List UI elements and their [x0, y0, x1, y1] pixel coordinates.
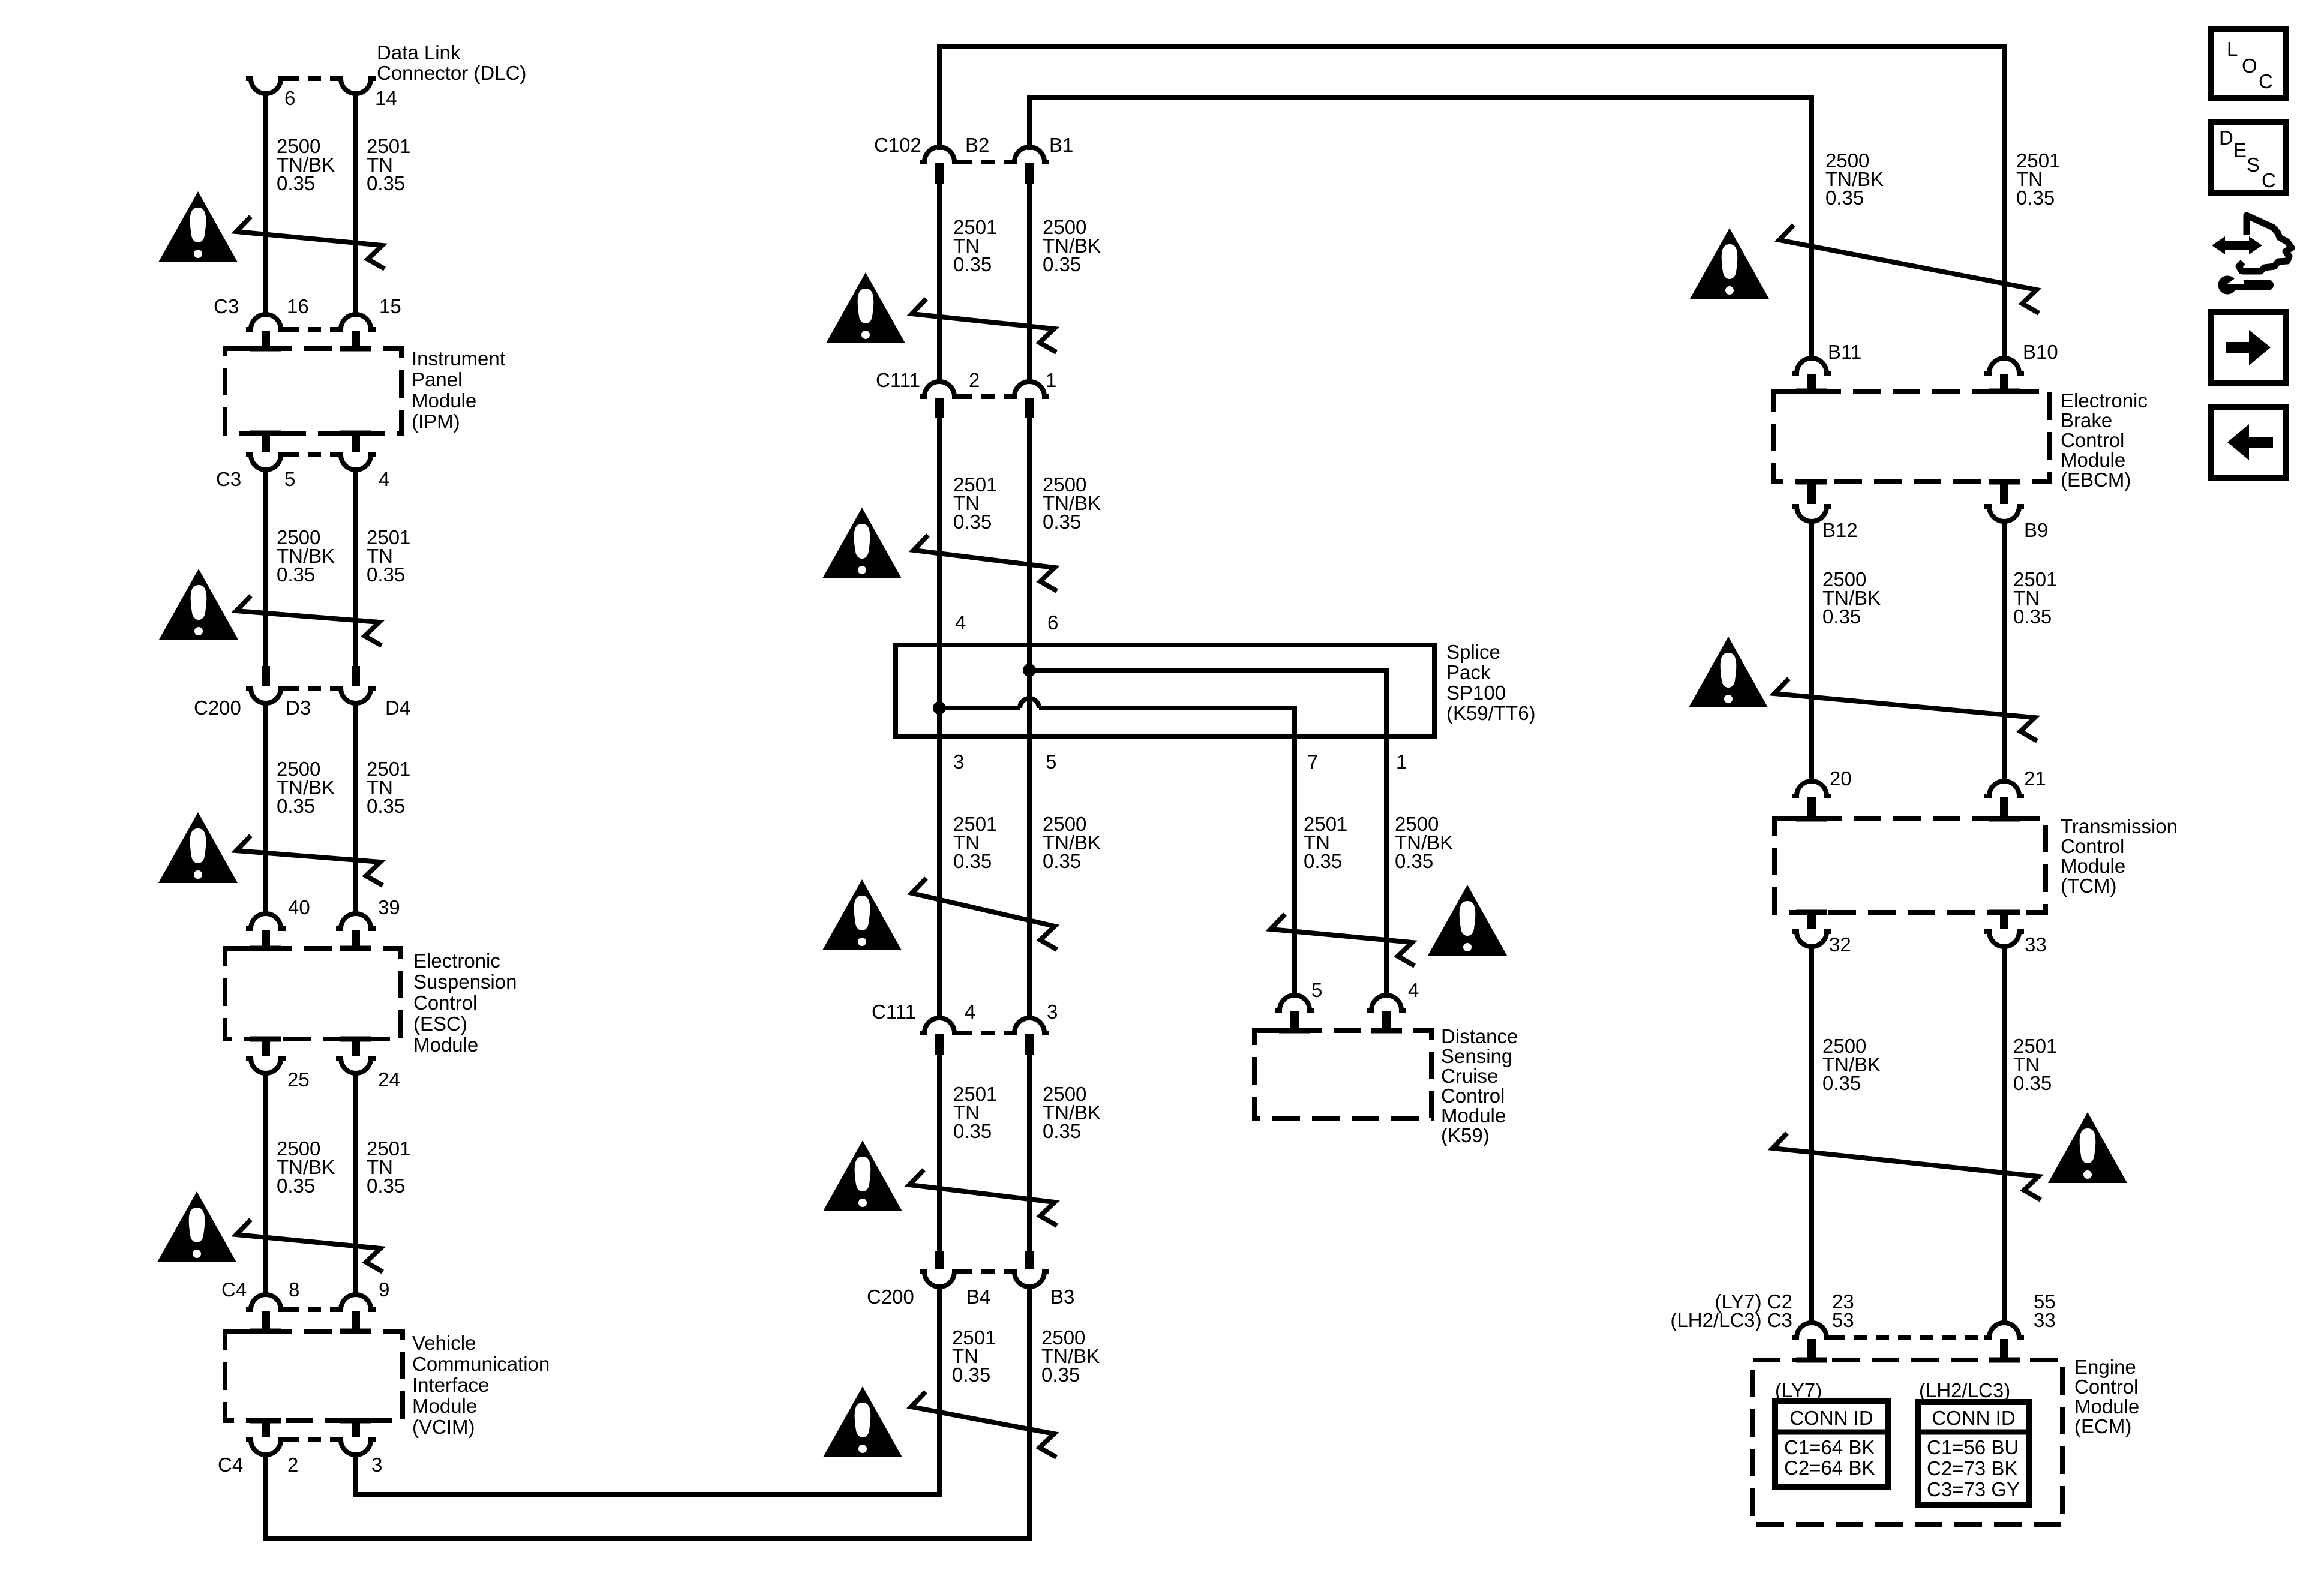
svg-text:C102: C102: [874, 134, 921, 156]
svg-text:0.35: 0.35: [1043, 1120, 1081, 1142]
wire 2501 TN TCM-33 to ECM: [2002, 947, 2007, 1324]
svg-text:B9: B9: [2024, 519, 2048, 541]
connector DLC pin 14: [336, 79, 376, 94]
connector C111 pin 2: [920, 382, 959, 397]
svg-text:1: 1: [1046, 369, 1056, 391]
in-line harness crossing 12: [1774, 679, 2037, 741]
svg-text:4: 4: [955, 611, 966, 634]
svg-text:(LY7): (LY7): [1775, 1379, 1822, 1401]
svg-text:Control: Control: [2074, 1376, 2138, 1398]
svg-text:Module: Module: [2061, 449, 2125, 471]
svg-text:0.35: 0.35: [1043, 253, 1081, 275]
svg-text:2: 2: [969, 369, 980, 391]
wire 2500 TN/BK EBCM-B12 to TCM-20: [1809, 521, 1814, 783]
connector DLC dashed link: [286, 76, 336, 81]
svg-text:(K59/TT6): (K59/TT6): [1446, 702, 1536, 724]
svg-text:(VCIM): (VCIM): [412, 1416, 475, 1438]
svg-text:0.35: 0.35: [1395, 850, 1433, 872]
in-line harness crossing 2: [236, 596, 382, 646]
svg-text:0.35: 0.35: [953, 1120, 992, 1142]
svg-text:0.35: 0.35: [367, 795, 405, 817]
junction dot on wire 6: [1023, 664, 1036, 677]
svg-text:33: 33: [2034, 1309, 2056, 1331]
svg-text:32: 32: [1829, 933, 1851, 956]
svg-text:(IPM): (IPM): [412, 410, 460, 433]
warning triangle 10: [823, 1386, 902, 1457]
wire 2500 TN/BK ESC-25 to VCIM-8: [263, 1073, 268, 1296]
svg-text:0.35: 0.35: [277, 1175, 315, 1197]
sidebar diagnostic icon vehicle outline: [2239, 215, 2292, 271]
wire 2501 TN ESC-24 to VCIM-9: [353, 1073, 358, 1296]
wire 2500 TN/BK DLC-6 to IPM-16: [263, 92, 268, 316]
connector C3 pin 16: [246, 314, 286, 329]
svg-text:0.35: 0.35: [277, 172, 315, 194]
connector C111 pin 1: [1010, 382, 1049, 397]
splice bus lower (to pin 7): [939, 708, 1295, 996]
connector DLC pin 6: [246, 79, 286, 94]
connector C111 dashed link (4-3): [959, 1031, 1010, 1035]
svg-text:(ESC): (ESC): [413, 1013, 467, 1035]
svg-text:B10: B10: [2023, 341, 2058, 363]
svg-text:CONN ID: CONN ID: [1789, 1407, 1873, 1429]
svg-text:0.35: 0.35: [367, 563, 405, 586]
connector C102 pin B2: [920, 147, 959, 162]
in-line harness crossing 5: [912, 299, 1056, 352]
svg-text:3: 3: [371, 1454, 382, 1476]
in-line harness crossing 9: [909, 1170, 1057, 1226]
in-line harness crossing 4: [236, 1220, 383, 1272]
svg-text:0.35: 0.35: [277, 563, 315, 586]
svg-text:C1=64 BK: C1=64 BK: [1784, 1436, 1875, 1458]
module ECM box: [1753, 1360, 2062, 1524]
wire 2501 TN IPM-4 to C200-D4: [353, 470, 358, 667]
svg-text:0.35: 0.35: [1825, 187, 1864, 209]
svg-text:C2=64 BK: C2=64 BK: [1784, 1457, 1875, 1479]
sidebar LOC box: [2211, 29, 2286, 98]
wire 2501 TN VCIM-3 to C200-B4: [356, 1287, 939, 1494]
svg-text:Module: Module: [1441, 1104, 1506, 1127]
svg-text:(EBCM): (EBCM): [2061, 469, 2131, 491]
svg-text:E: E: [2233, 139, 2247, 161]
in-line harness crossing 6: [914, 535, 1057, 591]
svg-text:15: 15: [379, 295, 401, 317]
svg-text:39: 39: [378, 896, 400, 918]
splice bus upper (to pin 1): [1029, 670, 1386, 996]
wire 2500 TN/BK VCIM-2 to C200-B3: [266, 1287, 1029, 1539]
warning triangle 1: [158, 191, 238, 262]
svg-text:L: L: [2227, 38, 2238, 60]
in-line harness crossing 1: [236, 217, 385, 269]
sidebar prev-view arrow box: [2211, 407, 2286, 478]
svg-text:Vehicle: Vehicle: [412, 1332, 476, 1354]
svg-text:14: 14: [375, 87, 397, 109]
svg-text:6: 6: [284, 87, 295, 109]
svg-text:0.35: 0.35: [1304, 850, 1342, 872]
warning triangle 8: [1428, 885, 1507, 956]
svg-text:Panel: Panel: [412, 368, 462, 391]
svg-text:C3: C3: [216, 468, 241, 490]
connector K59 pin 5: [1275, 995, 1314, 1010]
wire 2500 TN/BK C102-B1 to EBCM-B11 (second run): [1029, 97, 1812, 360]
svg-text:Pack: Pack: [1446, 661, 1491, 683]
svg-text:Interface: Interface: [412, 1374, 489, 1396]
svg-text:B1: B1: [1049, 134, 1073, 156]
svg-text:7: 7: [1307, 751, 1318, 773]
svg-text:Splice: Splice: [1446, 641, 1500, 663]
wire 2500 TN/BK C111-3 to C200-B3: [1027, 1055, 1032, 1252]
wire 2500 TN/BK IPM-5 to C200-D3: [263, 470, 268, 667]
svg-text:Electronic: Electronic: [413, 950, 500, 972]
svg-text:Brake: Brake: [2061, 409, 2112, 431]
connector C3 pin 4: [352, 432, 360, 452]
svg-text:C111: C111: [872, 1001, 916, 1023]
sidebar DESC box: [2211, 122, 2286, 193]
svg-text:(K59): (K59): [1441, 1124, 1490, 1146]
wire 2501 TN C200-D4 to ESC-39: [353, 703, 358, 915]
wire 2501 TN EBCM-B9 to TCM-21: [2002, 521, 2007, 783]
svg-text:C1=56 BU: C1=56 BU: [1927, 1436, 2019, 1458]
svg-text:D: D: [2219, 127, 2233, 149]
wire 2501 TN C102 to C111-2: [937, 184, 942, 383]
svg-text:(LH2/LC3) C3: (LH2/LC3) C3: [1670, 1309, 1792, 1331]
svg-text:O: O: [2242, 55, 2257, 77]
warning triangle 12: [1689, 637, 1768, 707]
svg-text:Connector (DLC): Connector (DLC): [377, 62, 526, 84]
connector TCM pin 33: [2000, 911, 2008, 929]
module ESC box: [225, 948, 401, 1039]
wire 2500 TN/BK TCM-32 to ECM: [1809, 947, 1814, 1324]
svg-text:Data Link: Data Link: [377, 41, 461, 64]
warning triangle 6: [822, 508, 902, 578]
svg-text:C: C: [2262, 169, 2276, 191]
connector C3 pin 5: [262, 432, 270, 452]
svg-text:Cruise: Cruise: [1441, 1065, 1498, 1087]
svg-text:Communication: Communication: [412, 1353, 550, 1375]
svg-text:C4: C4: [221, 1278, 247, 1301]
svg-text:B4: B4: [966, 1286, 990, 1308]
svg-text:24: 24: [378, 1068, 400, 1091]
svg-text:C3: C3: [214, 295, 239, 317]
connector ESC pin 25: [262, 1038, 270, 1056]
svg-text:D4: D4: [385, 697, 410, 719]
connector C102 dashed link: [959, 160, 1010, 164]
svg-text:C200: C200: [867, 1286, 914, 1308]
wire 2501 TN C111-4 to C200-B4: [937, 1055, 942, 1252]
svg-text:0.35: 0.35: [953, 253, 992, 275]
connector C4 pin 9: [336, 1295, 376, 1310]
svg-text:20: 20: [1830, 767, 1852, 789]
svg-text:Instrument: Instrument: [412, 347, 505, 370]
connector C102 pin B1: [1010, 147, 1049, 162]
module IPM box: [225, 349, 401, 433]
svg-text:0.35: 0.35: [1822, 1072, 1861, 1094]
connector C3 pin 15: [336, 314, 376, 329]
connector C3 dashed link (16-15): [286, 327, 336, 332]
connector C111 pin 3: [1010, 1018, 1049, 1033]
warning triangle 11: [1690, 228, 1769, 299]
warning triangle 4: [157, 1191, 236, 1262]
connector ECM right pin: [1984, 1323, 2024, 1338]
warning triangle 9: [823, 1140, 902, 1211]
svg-text:Electronic: Electronic: [2061, 389, 2148, 412]
connector EBCM pin B9: [2000, 481, 2008, 504]
svg-text:3: 3: [1047, 1001, 1058, 1023]
connector K59 pin 4: [1367, 995, 1406, 1010]
connector EBCM pin B11: [1792, 358, 1831, 373]
connector EBCM pin B10: [1984, 358, 2024, 373]
ECM CONN ID table LY7: [1775, 1401, 1888, 1487]
svg-text:(ECM): (ECM): [2074, 1415, 2131, 1437]
connector C200 pin D3: [262, 666, 270, 686]
svg-text:B11: B11: [1828, 341, 1861, 363]
connector EBCM pin B12: [1807, 481, 1816, 504]
svg-text:0.35: 0.35: [1043, 850, 1081, 872]
svg-text:0.35: 0.35: [367, 172, 405, 194]
warning triangle 13: [2048, 1112, 2127, 1183]
svg-text:Control: Control: [2061, 429, 2124, 451]
svg-text:9: 9: [379, 1278, 389, 1301]
svg-text:Module: Module: [2074, 1395, 2139, 1418]
svg-text:Engine: Engine: [2074, 1356, 2136, 1378]
module EBCM box: [1774, 391, 2050, 482]
svg-text:16: 16: [287, 295, 309, 317]
svg-text:0.35: 0.35: [367, 1175, 405, 1197]
wire 2500 TN/BK C200-D3 to ESC-40: [263, 703, 268, 915]
connector C200 dashed link (B4-B3): [959, 1269, 1010, 1274]
connector ESC pin 40: [246, 914, 286, 929]
connector C4 dashed link (2-3): [286, 1437, 336, 1442]
svg-text:Module: Module: [2061, 855, 2125, 877]
svg-text:0.35: 0.35: [953, 850, 992, 872]
svg-text:S: S: [2247, 154, 2260, 176]
connector C200 dashed link (D3-D4): [286, 686, 336, 691]
svg-text:5: 5: [1311, 979, 1322, 1001]
svg-text:0.35: 0.35: [2013, 605, 2052, 628]
svg-text:0.35: 0.35: [1041, 1364, 1080, 1386]
svg-text:Control: Control: [1441, 1085, 1505, 1107]
connector TCM pin 21: [1984, 781, 2024, 796]
sidebar diagnostic icon wrench: [2218, 276, 2237, 295]
connector ECM dashed link: [1831, 1335, 1984, 1340]
wire 2501 TN C111-2 through SP100: [937, 418, 942, 1020]
in-line harness crossing 10: [911, 1392, 1056, 1457]
connector C200 pin D4: [352, 666, 360, 686]
connector C111 pin 4: [920, 1018, 959, 1033]
svg-text:4: 4: [1408, 979, 1419, 1001]
svg-text:0.35: 0.35: [2013, 1072, 2052, 1094]
module VCIM box: [225, 1331, 403, 1421]
svg-text:Suspension: Suspension: [413, 971, 517, 993]
svg-text:0.35: 0.35: [953, 511, 992, 533]
svg-text:B3: B3: [1050, 1286, 1074, 1308]
svg-text:C2=73 BK: C2=73 BK: [1927, 1457, 2017, 1479]
wire 2500 TN/BK C111-1 through SP100: [1027, 418, 1032, 1020]
warning triangle 3: [158, 812, 238, 883]
connector C3 dashed link (5-4): [286, 452, 336, 457]
in-line harness crossing 3: [236, 836, 383, 885]
svg-text:Module: Module: [413, 1034, 478, 1056]
svg-text:0.35: 0.35: [277, 795, 315, 817]
svg-text:C200: C200: [194, 697, 241, 719]
in-line harness crossing 11: [1779, 225, 2039, 313]
svg-text:3: 3: [953, 751, 964, 773]
connector ESC pin 24: [352, 1038, 360, 1056]
svg-text:Control: Control: [413, 992, 477, 1014]
svg-text:C3=73 GY: C3=73 GY: [1927, 1478, 2020, 1500]
svg-text:6: 6: [1047, 611, 1058, 634]
svg-text:SP100: SP100: [1446, 682, 1506, 704]
svg-text:2: 2: [287, 1454, 298, 1476]
wire 2500 TN/BK C102 to C111-1: [1027, 184, 1032, 383]
ECM CONN ID table LH2/LC3: [1918, 1402, 2029, 1505]
svg-text:C111: C111: [876, 369, 920, 391]
svg-text:5: 5: [1046, 751, 1056, 773]
svg-text:0.35: 0.35: [2016, 187, 2055, 209]
connector C200 pin B3: [1025, 1251, 1034, 1269]
svg-text:0.35: 0.35: [952, 1364, 990, 1386]
connector TCM pin 20: [1792, 781, 1831, 796]
connector ESC pin 39: [336, 914, 376, 929]
splice pack SP100 box: [896, 645, 1434, 737]
svg-text:21: 21: [2024, 767, 2046, 789]
svg-text:Sensing: Sensing: [1441, 1045, 1512, 1067]
svg-text:Module: Module: [412, 1395, 477, 1417]
svg-text:40: 40: [288, 896, 310, 918]
connector ECM left pin: [1792, 1323, 1831, 1338]
connector C4 pin 2: [262, 1419, 270, 1437]
warning triangle 7: [822, 879, 902, 950]
svg-text:53: 53: [1832, 1309, 1854, 1331]
sidebar next-view arrow box: [2211, 312, 2286, 383]
connector TCM pin 32: [1807, 911, 1816, 929]
connector C111 dashed link (2-1): [959, 394, 1010, 399]
svg-text:Control: Control: [2061, 835, 2124, 857]
in-line harness crossing 13: [1773, 1133, 2041, 1200]
svg-text:4: 4: [965, 1001, 975, 1023]
svg-text:Distance: Distance: [1441, 1025, 1518, 1047]
svg-text:Module: Module: [412, 389, 476, 412]
svg-text:8: 8: [289, 1278, 299, 1301]
svg-text:B2: B2: [965, 134, 989, 156]
junction dot on wire 4: [933, 701, 946, 715]
warning triangle 5: [826, 272, 905, 343]
connector C4 dashed link (8-9): [286, 1307, 336, 1312]
in-line harness crossing 7: [912, 878, 1057, 950]
svg-text:1: 1: [1396, 751, 1407, 773]
module TCM box: [1774, 819, 2046, 912]
connector C200 pin B4: [935, 1251, 944, 1269]
wire 2501 TN DLC-14 to IPM-15: [353, 92, 358, 316]
svg-text:4: 4: [379, 468, 389, 490]
connector C4 pin 8: [246, 1295, 286, 1310]
svg-text:25: 25: [287, 1068, 310, 1091]
svg-text:33: 33: [2025, 933, 2047, 956]
svg-text:B12: B12: [1822, 519, 1858, 541]
module K59 box: [1254, 1031, 1431, 1118]
svg-text:D3: D3: [286, 697, 311, 719]
wire 2501 TN C102-B2 to EBCM-B10 (top run): [939, 46, 2004, 360]
connector C4 pin 3: [352, 1419, 360, 1437]
svg-text:0.35: 0.35: [1043, 511, 1081, 533]
warning triangle 2: [159, 569, 238, 640]
in-line harness crossing 8: [1271, 914, 1415, 966]
svg-text:5: 5: [284, 468, 295, 490]
svg-text:CONN ID: CONN ID: [1932, 1407, 2015, 1429]
svg-text:(LH2/LC3): (LH2/LC3): [1919, 1379, 2010, 1401]
svg-text:C: C: [2259, 70, 2273, 92]
svg-text:Transmission: Transmission: [2061, 815, 2178, 837]
sidebar diagnostic icon double arrow: [2212, 236, 2262, 254]
svg-text:C4: C4: [218, 1454, 243, 1476]
svg-text:0.35: 0.35: [1822, 605, 1861, 628]
svg-text:(TCM): (TCM): [2061, 875, 2116, 897]
